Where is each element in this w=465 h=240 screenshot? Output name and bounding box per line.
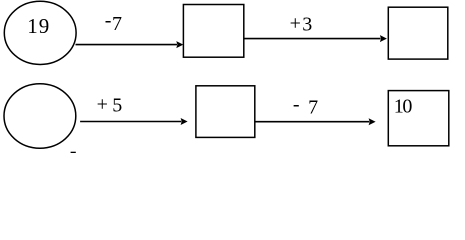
svg-text:-: -	[105, 10, 112, 32]
wire arrow 2	[244, 35, 387, 42]
svg-text:+: +	[97, 93, 108, 115]
wire arrow 1	[76, 41, 184, 48]
wire arrow 3	[80, 118, 188, 125]
svg-text:-: -	[293, 93, 300, 115]
label - 7 bottom	[293, 93, 318, 118]
label + 3	[290, 12, 313, 35]
svg-text:7: 7	[112, 13, 122, 35]
circle start node with 19	[4, 1, 76, 64]
box 3 (empty)	[196, 86, 255, 138]
svg-text:7: 7	[308, 96, 318, 118]
label + 5	[97, 93, 123, 116]
svg-text:+: +	[290, 12, 301, 34]
stray mark bottom	[71, 152, 76, 153]
svg-text:3: 3	[302, 14, 312, 36]
svg-text:5: 5	[112, 94, 122, 116]
box 2 (empty)	[388, 7, 448, 59]
box 1 (empty)	[183, 5, 243, 58]
wire arrow 4	[255, 118, 376, 125]
box 4 with 10	[388, 91, 449, 146]
label - 7	[105, 10, 122, 36]
svg-text:19: 19	[27, 14, 50, 38]
svg-text:10: 10	[394, 95, 413, 117]
circle 2 (empty)	[4, 84, 76, 148]
